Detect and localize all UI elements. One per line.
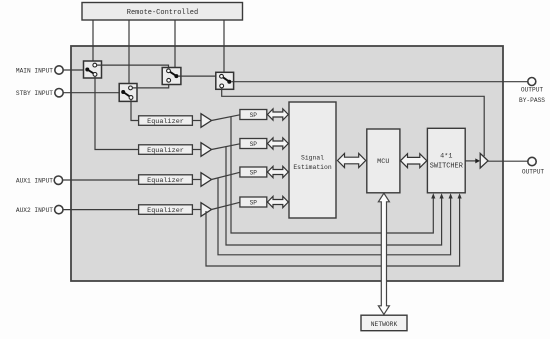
svg-text:SP: SP	[250, 141, 258, 148]
double arrow SP4 to Signal Estimation	[268, 196, 289, 207]
SP4 box	[240, 197, 267, 207]
switch S1	[84, 61, 102, 78]
wire feedback branch 1 to switcher	[231, 117, 433, 234]
wire remote drop 2	[128, 20, 130, 84]
wire S1 throw2 down to Equalizer 2	[95, 76, 139, 149]
svg-text:Equalizer: Equalizer	[147, 118, 184, 126]
4*1 switcher block U3	[427, 128, 465, 193]
arrowhead branch 3	[449, 193, 453, 198]
wire feedback branch 4 to switcher	[206, 198, 460, 266]
wire feedback branch 2 to switcher	[226, 147, 442, 245]
arrowhead branch 1	[431, 193, 435, 198]
wire S4 pole to OUTPUT BY-PASS	[231, 81, 528, 83]
wire remote drop 3	[174, 20, 176, 68]
double arrow MCU to NETWORK	[378, 193, 389, 314]
wire S2 throw2 down to Equalizer 1	[131, 99, 139, 120]
node AUX1 INPUT terminal	[16, 176, 63, 185]
double arrow SP1 to Signal Estimation	[268, 109, 289, 120]
remote-controlled box	[82, 3, 243, 21]
output amp A5	[480, 153, 488, 168]
wire S4 throw2 down across to output amp	[222, 88, 485, 156]
svg-text:AUX2 INPUT: AUX2 INPUT	[16, 207, 53, 214]
wire remote drop 4	[223, 20, 225, 72]
amp A1	[201, 114, 212, 128]
svg-text:MCU: MCU	[377, 158, 389, 166]
wire S2 throw1 to S3 bottom	[132, 82, 168, 88]
svg-text:SP: SP	[250, 200, 258, 207]
wire feedback branch 3 to switcher	[218, 178, 451, 255]
double arrow SP3 to Signal Estimation	[268, 166, 289, 177]
svg-text:SP: SP	[250, 170, 258, 177]
svg-text:NETWORK: NETWORK	[371, 321, 398, 328]
wire amp A5 to OUTPUT	[488, 160, 528, 162]
wire amp A4 to SP4	[212, 202, 240, 209]
SP2 box	[240, 139, 267, 149]
node MAIN INPUT terminal	[16, 66, 63, 75]
equalizer EQ1	[139, 116, 193, 126]
svg-text:BY-PASS: BY-PASS	[519, 97, 545, 104]
wire switcher to output amp	[465, 160, 476, 162]
svg-text:Equalizer: Equalizer	[147, 207, 184, 215]
svg-text:SWITCHER: SWITCHER	[430, 162, 463, 170]
amp A3	[201, 173, 212, 187]
amp A4	[201, 203, 212, 217]
SP1 box	[240, 110, 267, 120]
svg-text:STBY INPUT: STBY INPUT	[16, 90, 53, 97]
svg-text:AUX1 INPUT: AUX1 INPUT	[16, 178, 53, 185]
equalizer EQ3	[139, 175, 193, 185]
MCU block U2	[367, 129, 400, 193]
SP3 box	[240, 167, 267, 177]
svg-text:OUTPUT: OUTPUT	[521, 87, 544, 94]
equalizer EQ4	[139, 205, 193, 215]
arrowhead branch 4	[458, 193, 462, 198]
wire amp A3 to SP3	[212, 172, 240, 179]
arrowhead switcher to amp	[475, 158, 480, 163]
wire AUX2 input to Equalizer 4	[63, 209, 139, 211]
wire AUX1 input to Equalizer 3	[63, 179, 139, 181]
node AUX2 INPUT terminal	[16, 205, 63, 213]
Signal Estimation block U1	[289, 102, 336, 218]
svg-text:SP: SP	[250, 112, 258, 119]
equalizer EQ2	[139, 145, 193, 155]
wire amp A2 to SP2	[212, 144, 240, 150]
amp A2	[201, 143, 212, 157]
double arrow SP2 to Signal Estimation	[268, 138, 289, 149]
arrowhead branch 2	[440, 193, 444, 198]
svg-text:Estimation: Estimation	[293, 164, 332, 171]
NETWORK box	[361, 315, 407, 331]
svg-text:Remote-Controlled: Remote-Controlled	[127, 9, 198, 17]
wire EQ4 to amp A4	[192, 209, 201, 211]
svg-text:4*1: 4*1	[440, 152, 452, 160]
wire S3 pole to S4	[178, 75, 219, 77]
svg-text:Equalizer: Equalizer	[147, 177, 184, 185]
switch S3	[162, 68, 181, 85]
switch S4	[216, 72, 234, 89]
node STBY INPUT terminal	[16, 89, 63, 98]
double arrow Signal Estimation to MCU	[338, 154, 366, 168]
svg-text:OUTPUT: OUTPUT	[522, 168, 545, 175]
wire STBY input to switch S2	[63, 92, 123, 94]
svg-text:Signal: Signal	[301, 155, 324, 162]
double arrow MCU to switcher	[401, 154, 427, 168]
wire EQ3 to amp A3	[192, 179, 201, 181]
wire S1 throw1 to S3	[97, 65, 169, 69]
wire EQ1 to amp A1	[192, 120, 201, 122]
node OUTPUT BY-PASS terminal	[519, 78, 545, 105]
svg-text:Equalizer: Equalizer	[147, 147, 184, 155]
wire MAIN input to switch S1	[63, 69, 87, 71]
node OUTPUT terminal	[522, 157, 545, 175]
wire amp A1 to SP1	[212, 115, 240, 121]
wire remote drop 1	[92, 20, 94, 61]
wire EQ2 to amp A2	[192, 149, 201, 151]
svg-text:MAIN INPUT: MAIN INPUT	[16, 67, 53, 74]
enclosure main unit	[71, 46, 503, 281]
switch S2	[119, 84, 137, 102]
